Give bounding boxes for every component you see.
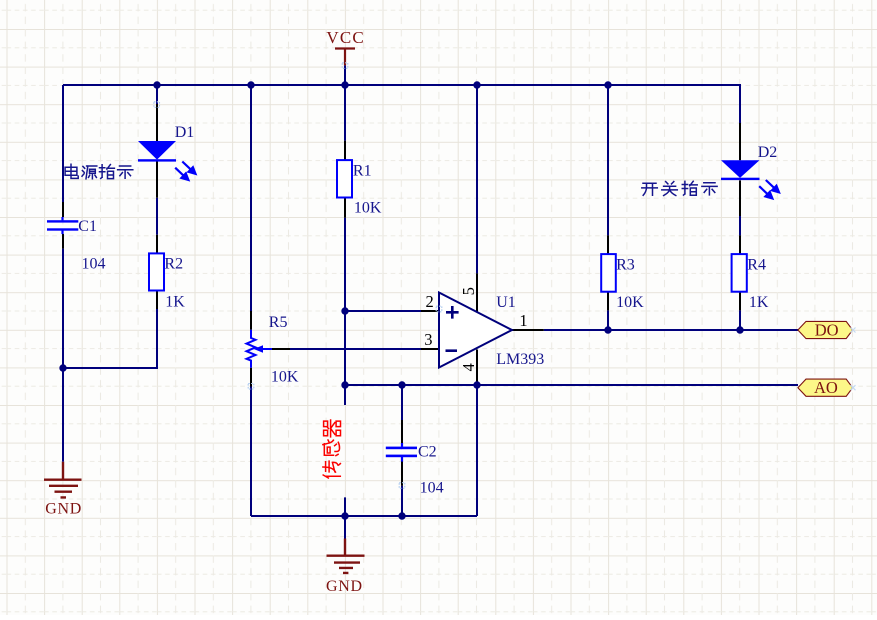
svg-text:GND: GND [45,501,82,518]
svg-text:1: 1 [519,311,527,330]
svg-text:VCC: VCC [326,28,365,47]
svg-text:104: 104 [82,255,106,272]
svg-text:D2: D2 [758,144,778,161]
svg-text:1K: 1K [749,294,769,311]
svg-text:U1: U1 [496,294,516,311]
svg-text:R1: R1 [353,162,372,179]
svg-text:2: 2 [426,292,434,311]
svg-text:R2: R2 [164,255,183,272]
svg-text:D1: D1 [175,124,195,141]
svg-text:C1: C1 [78,218,97,235]
svg-text:4: 4 [459,363,478,371]
svg-text:10K: 10K [354,199,382,216]
svg-text:GND: GND [326,578,363,595]
svg-text:LM393: LM393 [496,351,544,368]
svg-text:R4: R4 [747,256,766,273]
svg-text:DO: DO [815,320,839,339]
svg-text:10K: 10K [271,369,299,386]
svg-text:10K: 10K [616,294,644,311]
svg-text:AO: AO [814,378,838,397]
svg-text:104: 104 [420,479,444,496]
svg-text:1K: 1K [165,294,185,311]
svg-text:C2: C2 [418,444,437,461]
svg-text:R3: R3 [616,256,635,273]
svg-text:5: 5 [459,287,478,295]
svg-text:R5: R5 [269,314,288,331]
svg-text:3: 3 [424,330,432,349]
